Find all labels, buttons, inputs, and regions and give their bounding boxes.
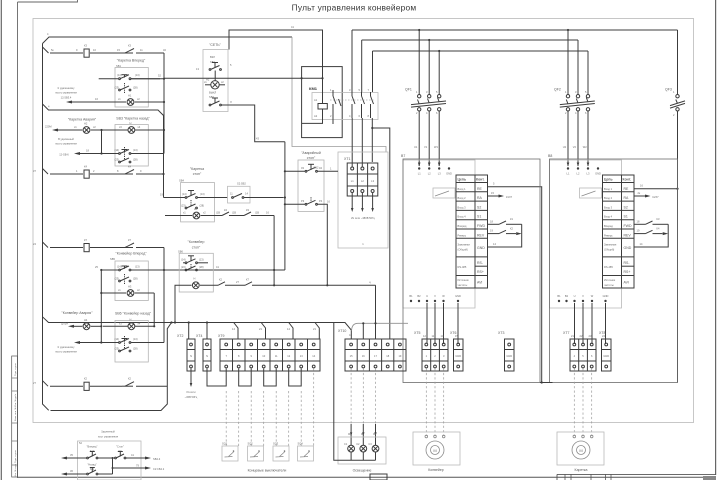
- svg-text:(1В: (1В: [232, 211, 236, 215]
- svg-text:(23): (23): [115, 347, 120, 351]
- svg-text:В8: В8: [548, 154, 552, 158]
- terminal XT4: [196, 334, 211, 371]
- emergency stop box SB2: [285, 160, 338, 211]
- svg-text:Вход 3: Вход 3: [458, 205, 467, 209]
- svg-text:(1В: (1В: [216, 211, 220, 215]
- label Каретка Вперед: [116, 59, 146, 69]
- svg-text:(28): (28): [133, 277, 138, 281]
- lamp chain row to lighting: [200, 277, 376, 339]
- svg-text:Подп. и дата: Подп. и дата: [15, 449, 17, 463]
- svg-text:GND: GND: [595, 172, 601, 176]
- svg-text:V: V: [434, 294, 436, 298]
- U2 bottom terminals: [557, 294, 608, 302]
- svg-text:(28): (28): [133, 86, 138, 90]
- wire U1 RA arrow: [488, 191, 513, 199]
- svg-text:стоп": стоп": [193, 172, 202, 176]
- svg-text:Концевые выключатели: Концевые выключатели: [248, 469, 287, 473]
- svg-text:ХТ3: ХТ3: [498, 331, 504, 335]
- svg-text:FWD: FWD: [477, 224, 485, 228]
- svg-text:RE: RE: [624, 187, 630, 191]
- svg-text:(13): (13): [135, 73, 140, 77]
- svg-text:(23): (23): [115, 86, 120, 90]
- svg-text:RS-: RS-: [624, 261, 631, 265]
- wire row3 to emergency riser: [131, 53, 165, 154]
- svg-text:(Общий): (Общий): [604, 248, 614, 252]
- pushbutton box SB1 (carriage fwd): [99, 68, 160, 108]
- text to remote post 3: [55, 345, 77, 354]
- svg-text:С2:СБ2.2: С2:СБ2.2: [153, 467, 165, 471]
- page left edge line: [0, 0, 2, 480]
- svg-text:W1: W1: [434, 145, 438, 149]
- bus L3: [373, 50, 589, 52]
- pushbutton box SB6 conveyor stop: [179, 253, 213, 292]
- wire from control to KM1 coil top: [229, 25, 324, 104]
- U2 GND row loop: [634, 224, 668, 247]
- svg-text:Освещение: Освещение: [353, 469, 372, 473]
- remote button Назад SB11: [61, 463, 113, 476]
- svg-text:U: U: [574, 294, 576, 298]
- relay K7 row (conveyor): [33, 238, 164, 343]
- bottom separator line: [18, 476, 717, 478]
- jumpers below XT4/XT9: [207, 369, 301, 387]
- lamp H1 carriage fwd: [66, 94, 164, 106]
- svg-text:ХТ7: ХТ7: [563, 331, 569, 335]
- svg-text:"Конвейер: "Конвейер: [188, 240, 205, 244]
- terminal XT7: [563, 331, 596, 371]
- svg-text:RA: RA: [477, 196, 483, 200]
- svg-text:RA: RA: [624, 196, 630, 200]
- svg-text:SQ3: SQ3: [273, 442, 279, 446]
- terminal XT8: [599, 331, 611, 371]
- svg-text:частоты: частоты: [604, 284, 614, 287]
- sheet frame left vertical: [17, 2, 19, 478]
- contactor KM1 box: [302, 67, 378, 138]
- wire U2 RA arrow: [634, 191, 659, 199]
- svg-text:М: М: [579, 448, 582, 453]
- wires U1 outputs to XT5/XT6: [423, 303, 458, 344]
- svg-text:(28): (28): [133, 158, 138, 162]
- lamp EL1: [344, 442, 355, 452]
- svg-text:посту управления: посту управления: [55, 351, 77, 354]
- svg-text:S2:SB2: S2:SB2: [237, 182, 246, 186]
- page right edge line: [715, 0, 717, 475]
- svg-text:RS+: RS+: [477, 270, 484, 274]
- terminal XT6: [450, 331, 463, 371]
- svg-text:SB4: SB4: [179, 179, 184, 183]
- wire U1 RE to right riser: [488, 182, 542, 383]
- svg-text:"Каретка Вперед": "Каретка Вперед": [117, 59, 146, 63]
- section boundary grey: [43, 32, 387, 152]
- svg-text:Вход 1: Вход 1: [458, 187, 467, 191]
- svg-text:Н: Н: [130, 121, 132, 125]
- lamp K2 carriage alarm: [45, 122, 96, 134]
- svg-text:Л: Л: [230, 100, 232, 104]
- pushbutton box SB6 conveyor back: [80, 318, 164, 362]
- emergency stop riser: [284, 142, 286, 270]
- pushbutton box SB4: [160, 183, 228, 222]
- drops from bus to XT9: [188, 321, 351, 339]
- lighting return bus: [334, 323, 376, 461]
- text to remote post 2: [55, 137, 77, 157]
- svg-text:GND: GND: [624, 246, 632, 250]
- svg-text:"Аварийный: "Аварийный: [301, 151, 321, 155]
- limit switch SQ3: [273, 442, 289, 462]
- svg-text:К удаленному: К удаленному: [58, 86, 75, 90]
- svg-text:Каретка: Каретка: [575, 468, 588, 472]
- svg-text:(23): (23): [115, 277, 120, 281]
- svg-text:AVI: AVI: [624, 281, 629, 285]
- XT bus to terminals: [43, 317, 352, 339]
- lamp row carriage stop: [160, 207, 274, 219]
- svg-text:(13): (13): [135, 265, 140, 269]
- svg-text:ХТ1: ХТ1: [344, 157, 350, 161]
- svg-text:КМ1: КМ1: [309, 86, 318, 91]
- row SB3 carriage back button: [80, 117, 164, 167]
- left vertical stamp strip: [12, 356, 18, 477]
- svg-text:В7: В7: [401, 154, 405, 158]
- svg-text:V: V: [582, 294, 584, 298]
- svg-text:Из сети: Из сети: [186, 390, 196, 394]
- label Каретка Авария: [68, 118, 97, 122]
- motor Конвейер: [413, 432, 460, 472]
- relay K4 row: [33, 165, 165, 179]
- svg-text:посту управления: посту управления: [55, 143, 77, 146]
- svg-text:(14): (14): [181, 257, 186, 261]
- U1 REV contact K2: [488, 227, 522, 236]
- bus L2: [362, 39, 578, 41]
- svg-text:"Вперед": "Вперед": [87, 445, 98, 449]
- svg-text:SQ4: SQ4: [298, 442, 304, 446]
- motor Каретка: [557, 432, 604, 472]
- svg-text:Н3: Н3: [128, 285, 132, 289]
- svg-text:Н: Н: [194, 277, 196, 281]
- riser lamp row down: [273, 216, 275, 287]
- svg-text:ВКЛ: ВКЛ: [210, 55, 215, 59]
- svg-text:пост управления: пост управления: [98, 436, 119, 439]
- svg-text:В2: В2: [417, 294, 421, 298]
- label Конвейер стоп: [178, 240, 204, 254]
- terminal XT9: [218, 334, 320, 371]
- svg-text:S2: S2: [624, 205, 628, 209]
- svg-text:S1: S1: [477, 215, 481, 219]
- svg-text:(14): (14): [182, 192, 187, 196]
- svg-text:N: N: [206, 354, 208, 358]
- svg-text:ХТ5: ХТ5: [414, 331, 420, 335]
- svg-text:ХТ9: ХТ9: [218, 334, 224, 338]
- left vertical rail: [43, 44, 49, 411]
- svg-text:Инв. № подл.: Инв. № подл.: [14, 463, 17, 477]
- label Освещение: [353, 469, 372, 473]
- KM1 poles: [330, 88, 374, 124]
- svg-text:Н2: Н2: [84, 122, 88, 126]
- svg-text:Ч: Ч: [369, 280, 371, 284]
- svg-text:Источник: Источник: [458, 278, 470, 282]
- svg-text:SB4-3: SB4-3: [153, 457, 161, 461]
- svg-text:GND: GND: [603, 354, 609, 358]
- U2 input terminals: [567, 167, 601, 175]
- svg-text:Р3: Р3: [301, 199, 305, 203]
- svg-text:220М: 220М: [45, 125, 52, 129]
- lamp EL2: [356, 442, 366, 452]
- svg-text:REV: REV: [477, 233, 485, 237]
- svg-text:ХТ6: ХТ6: [450, 331, 456, 335]
- dashed drops XT9 to limit switches: [226, 369, 314, 447]
- svg-text:Вперед: Вперед: [604, 224, 613, 228]
- svg-text:(23): (23): [181, 204, 186, 208]
- svg-text:(28): (28): [199, 265, 204, 269]
- terminal XT3: [498, 331, 514, 371]
- svg-text:RS-485: RS-485: [604, 265, 613, 269]
- svg-text:GND: GND: [446, 172, 452, 176]
- converter U1 box: [401, 154, 475, 308]
- svg-text:ХТ4: ХТ4: [196, 334, 202, 338]
- svg-text:ВЫКЛ: ВЫКЛ: [209, 91, 217, 95]
- svg-text:ХТ2: ХТ2: [177, 334, 183, 338]
- incoming mains arrows: [351, 193, 376, 220]
- svg-text:"Конвейер Вперед": "Конвейер Вперед": [115, 252, 147, 256]
- svg-text:частоты: частоты: [458, 284, 468, 287]
- limit switch SQ2: [248, 442, 264, 462]
- svg-text:QF1: QF1: [405, 88, 412, 92]
- lighting dashed drops from XT10: [350, 369, 377, 446]
- svg-text:Источник: Источник: [604, 278, 616, 282]
- svg-text:Зажимная: Зажимная: [604, 243, 617, 247]
- row K3 coil (carriage fwd relay): [50, 44, 166, 58]
- label Каретка стоп: [179, 167, 204, 183]
- inner drawing frame: [33, 19, 694, 423]
- limit switch SQ4: [298, 442, 314, 462]
- relay K2 row bottom: [33, 377, 167, 391]
- svg-text:QF2: QF2: [554, 88, 561, 92]
- svg-text:GND: GND: [455, 294, 461, 298]
- lamp H in SB3 box: [126, 126, 156, 134]
- text to remote post 1: [55, 86, 77, 100]
- svg-text:К1Х7: К1Х7: [506, 195, 513, 199]
- label SB6 Конвейер назад: [115, 312, 152, 316]
- svg-text:(28): (28): [200, 204, 205, 208]
- svg-text:Н1: Н1: [128, 94, 132, 98]
- label концевые выключатели: [248, 469, 287, 473]
- svg-text:V2: V2: [573, 145, 577, 149]
- feed to XT10 col2: [352, 322, 408, 339]
- KM1 feed risers to buses: [352, 30, 373, 92]
- terminal XT2: [177, 334, 198, 399]
- arrow row 153: [74, 149, 103, 156]
- svg-text:12-SB-6: 12-SB-6: [59, 153, 69, 157]
- svg-text:S2: S2: [477, 205, 481, 209]
- motor cable Конвейер dashed: [426, 369, 443, 437]
- svg-text:В1: В1: [409, 294, 413, 298]
- svg-text:стоп": стоп": [307, 156, 316, 160]
- svg-text:~36В 50Гц: ~36В 50Гц: [185, 395, 198, 399]
- sheet title: [292, 3, 417, 13]
- svg-text:Конт.: Конт.: [623, 178, 632, 182]
- U1 signal table: [456, 175, 488, 288]
- svg-text:Н4: Н4: [84, 318, 88, 322]
- label Конвейер Авария: [62, 311, 94, 315]
- svg-text:SB2: SB2: [314, 166, 319, 170]
- wires U2 outputs to XT7/XT8: [571, 303, 606, 344]
- svg-text:Конт.: Конт.: [476, 178, 485, 182]
- svg-text:Подп. и дата: Подп. и дата: [15, 362, 17, 376]
- converter U2 box: [548, 154, 622, 308]
- svg-text:Н: Н: [130, 318, 132, 322]
- svg-text:(Общий): (Общий): [458, 248, 468, 252]
- svg-text:V1: V1: [424, 145, 428, 149]
- svg-text:Вход 1: Вход 1: [604, 187, 613, 191]
- svg-text:Вход 4: Вход 4: [458, 215, 467, 219]
- U2 REV contact K4: [634, 227, 668, 236]
- svg-text:(23): (23): [181, 265, 186, 269]
- wire U2 RE to QF3 riser: [634, 184, 679, 190]
- svg-text:"Назад": "Назад": [87, 463, 96, 467]
- small box left of stamp: [370, 474, 387, 480]
- svg-text:SB6: SB6: [178, 250, 183, 254]
- svg-text:Цепь: Цепь: [458, 178, 467, 182]
- svg-text:REV: REV: [624, 233, 632, 237]
- pushbutton box SB5 conveyor fwd: [95, 261, 285, 301]
- remote button Вперед SB10: [61, 445, 98, 460]
- arrow conveyor back row: [74, 341, 102, 344]
- svg-text:Из сети ~380В 50Гц: Из сети ~380В 50Гц: [351, 216, 375, 220]
- svg-text:"Конвейер Авария": "Конвейер Авария": [62, 311, 94, 315]
- lamp H conveyor fwd: [101, 285, 140, 297]
- phase wire labels QF2-U2: [563, 145, 587, 149]
- svg-text:К удаленному: К удаленному: [58, 345, 75, 349]
- bottom common wire: [403, 159, 678, 384]
- svg-text:В2: В2: [565, 294, 569, 298]
- svg-text:FWD: FWD: [624, 224, 632, 228]
- U1 jumper symbol: [433, 188, 455, 198]
- S2SB2 aux box: [228, 182, 284, 204]
- svg-text:Пульт управления конвейером: Пульт управления конвейером: [292, 3, 417, 13]
- phase wire labels QF1-U1: [414, 145, 438, 149]
- svg-text:В удаленный: В удаленный: [58, 137, 74, 141]
- svg-text:(14): (14): [115, 148, 120, 152]
- svg-text:Вход 3: Вход 3: [604, 205, 613, 209]
- svg-text:Вход 4: Вход 4: [604, 215, 613, 219]
- bottom return rail: [51, 323, 172, 411]
- svg-text:U1: U1: [414, 145, 418, 149]
- svg-text:Р4: Р4: [319, 199, 323, 203]
- svg-text:С3: С3: [368, 442, 372, 446]
- rail 4: [43, 104, 164, 198]
- label Конвейер Вперед: [110, 252, 147, 262]
- svg-text:SB5: SB5: [110, 257, 115, 261]
- svg-text:W2: W2: [583, 145, 587, 149]
- limit switch SQ1: [222, 442, 238, 462]
- svg-text:U2: U2: [563, 145, 567, 149]
- U1 bottom terminals: [409, 294, 461, 302]
- XT1 enclosure: [338, 152, 388, 248]
- svg-text:В1: В1: [557, 294, 561, 298]
- svg-text:Удаленный: Удаленный: [101, 430, 115, 434]
- svg-text:GND: GND: [455, 354, 461, 358]
- svg-text:Н: Н: [194, 207, 196, 211]
- terminal XT10: [338, 329, 406, 371]
- svg-text:С2: С2: [356, 442, 360, 446]
- svg-text:GND: GND: [477, 246, 485, 250]
- KM1 coil: [302, 98, 328, 123]
- svg-text:Вход 2: Вход 2: [458, 196, 467, 200]
- motor cable Каретка dashed: [574, 369, 591, 437]
- svg-text:М: М: [433, 448, 436, 453]
- svg-text:стоп": стоп": [192, 246, 201, 250]
- svg-text:GND: GND: [603, 294, 609, 298]
- U1 FWD contact K1: [488, 217, 522, 224]
- svg-text:Вход 2: Вход 2: [604, 196, 613, 200]
- svg-text:(23): (23): [115, 158, 120, 162]
- svg-text:AVI: AVI: [477, 281, 482, 285]
- svg-text:А1: А1: [314, 98, 318, 102]
- terminal XT1: [344, 157, 378, 196]
- svg-text:QF3: QF3: [665, 88, 672, 92]
- svg-text:12:SB3.4: 12:SB3.4: [61, 96, 72, 100]
- svg-text:(14): (14): [117, 265, 122, 269]
- KM1 pole outputs down to XT1: [352, 118, 390, 339]
- svg-text:S1: S1: [624, 215, 628, 219]
- svg-text:(28): (28): [133, 347, 138, 351]
- svg-text:"СЕТЬ": "СЕТЬ": [209, 43, 222, 47]
- svg-text:(13): (13): [199, 257, 204, 261]
- U2 jumper symbol: [580, 188, 602, 198]
- svg-text:Реверс: Реверс: [458, 233, 467, 237]
- top-left inventory box: [18, 0, 78, 2]
- svg-text:RS+: RS+: [624, 270, 631, 274]
- svg-text:SB6 "Конвейер назад": SB6 "Конвейер назад": [115, 312, 152, 316]
- svg-text:"Каретка: "Каретка: [190, 167, 204, 171]
- lighting box: [338, 432, 386, 464]
- svg-text:SB3 "Каретка назад": SB3 "Каретка назад": [116, 117, 150, 121]
- svg-text:К2Х7: К2Х7: [653, 195, 660, 199]
- svg-text:RS-: RS-: [477, 261, 484, 265]
- svg-text:RE: RE: [477, 187, 483, 191]
- svg-text:(1В: (1В: [255, 211, 259, 215]
- svg-text:U: U: [426, 294, 428, 298]
- svg-text:(14): (14): [117, 73, 122, 77]
- svg-text:ХТ8: ХТ8: [599, 331, 605, 335]
- svg-text:SQ2: SQ2: [248, 442, 254, 446]
- label Аварийный стоп: [301, 151, 321, 160]
- lamp H3 conveyor alarm: [61, 269, 102, 343]
- svg-text:Реверс: Реверс: [604, 233, 613, 237]
- svg-text:N: N: [190, 354, 192, 358]
- svg-text:SQ1: SQ1: [222, 442, 228, 446]
- svg-text:RS-485: RS-485: [458, 265, 467, 269]
- remote button Стоп SB9: [98, 445, 165, 475]
- svg-text:ХТ10: ХТ10: [338, 329, 346, 333]
- svg-text:(13): (13): [133, 148, 138, 152]
- svg-text:Цепь: Цепь: [604, 178, 613, 182]
- bus L1: [352, 29, 678, 31]
- U2 FWD contact K3: [634, 217, 668, 224]
- U1 input terminals: [418, 167, 452, 175]
- lamp H in conveyor stop box: [135, 277, 200, 328]
- U2 signal table: [603, 175, 635, 288]
- svg-text:С1: С1: [344, 442, 348, 446]
- svg-text:(13): (13): [200, 192, 205, 196]
- svg-text:(13): (13): [133, 337, 138, 341]
- terminal XT5: [414, 331, 448, 371]
- svg-text:А2: А2: [314, 114, 318, 118]
- svg-text:Зажимная: Зажимная: [458, 243, 471, 247]
- svg-text:посту управления: посту управления: [55, 92, 77, 95]
- lamp EL3: [368, 442, 379, 452]
- junction dots on buses: [418, 29, 569, 52]
- U1 GND row loop: [488, 224, 522, 247]
- title block (stamp) bottom right: [557, 474, 716, 480]
- svg-text:"Каретка Авария": "Каретка Авария": [68, 118, 97, 122]
